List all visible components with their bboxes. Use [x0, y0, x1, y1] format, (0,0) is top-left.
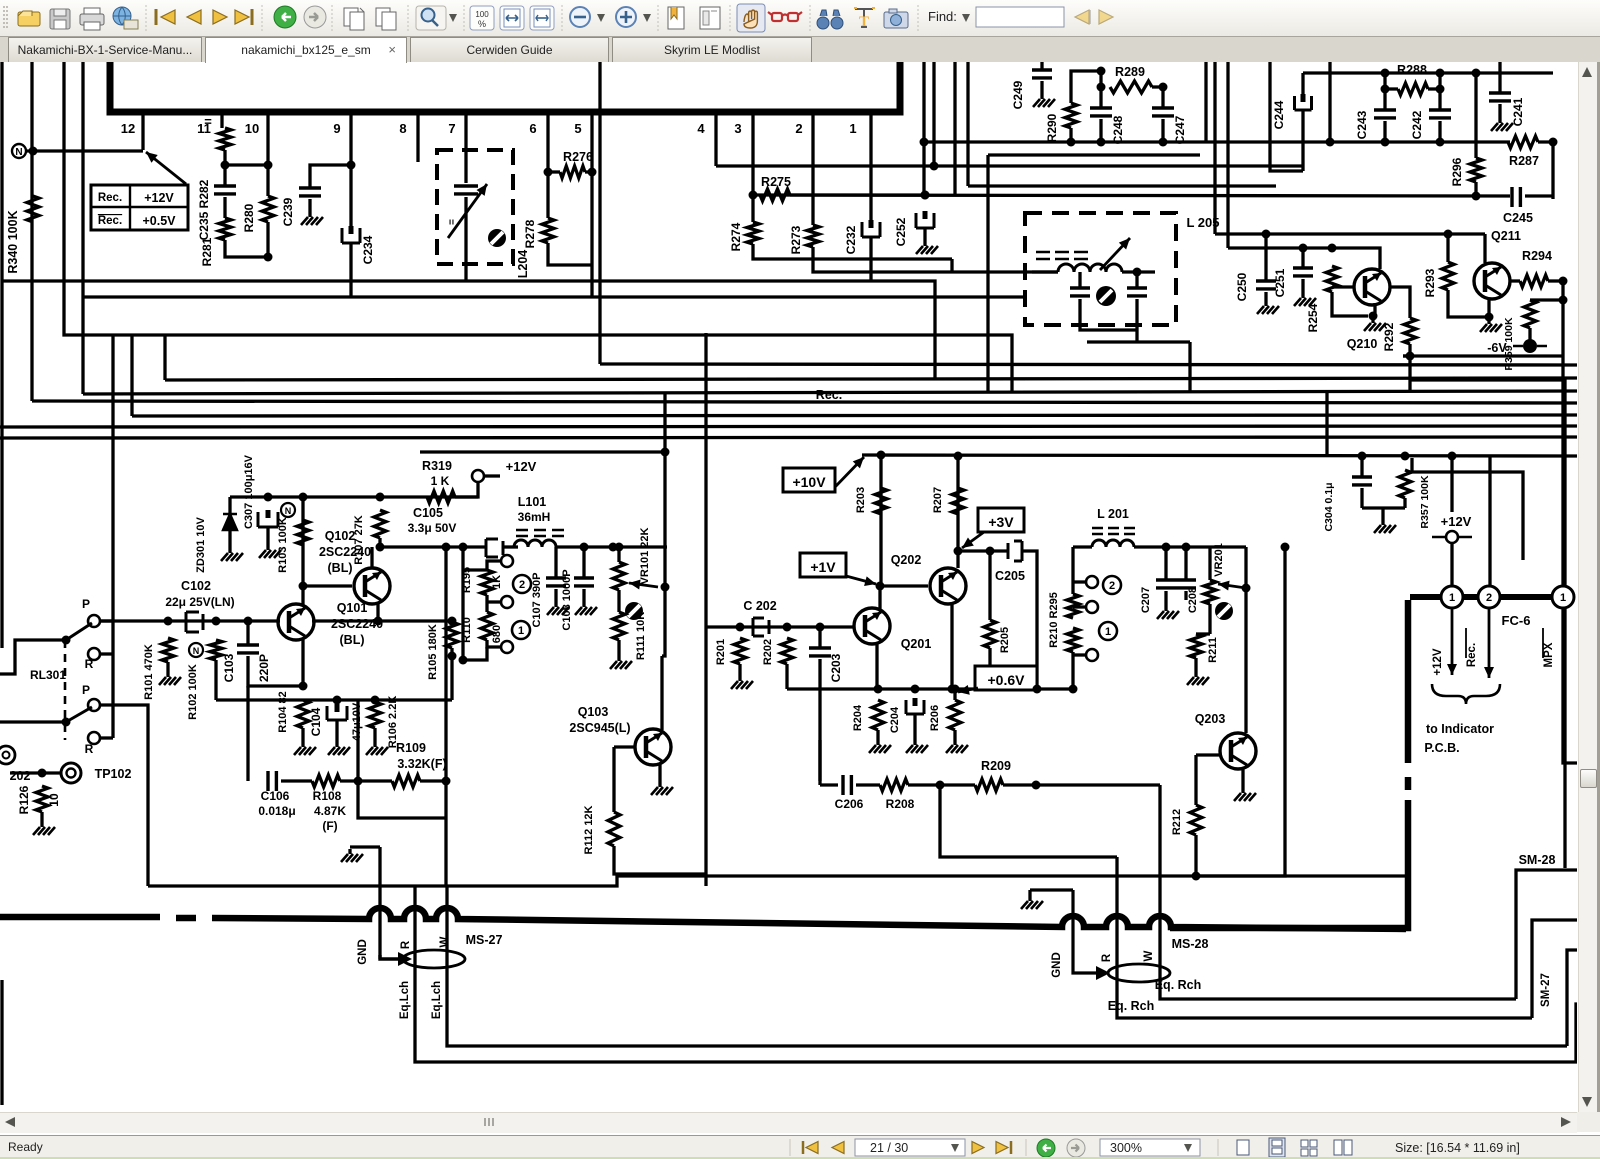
- selector contact d: [1086, 576, 1098, 588]
- ground under R204: [876, 740, 879, 745]
- signal wire y621: [100, 619, 280, 622]
- junction R289 left top: [1097, 67, 1106, 76]
- resistor R104: [297, 700, 309, 728]
- node wire pin10 R280: [225, 163, 268, 166]
- left vertical wire C: [30, 62, 33, 401]
- rail +0.6V: [787, 687, 1073, 690]
- junction R254 top: [1328, 244, 1337, 253]
- drop wire x1190: [1188, 342, 1191, 391]
- junction R105 bottom: [448, 652, 457, 661]
- svg-text:Rec.: Rec.: [98, 192, 122, 204]
- ground under C104: [335, 742, 338, 747]
- R295 chain: [1071, 547, 1074, 594]
- Q103 emitter wire: [658, 764, 661, 782]
- R111 to ground: [617, 640, 620, 656]
- +3V arrow: [962, 532, 984, 548]
- svg-text:C204: C204: [889, 706, 901, 733]
- junction C304 top: [1358, 452, 1367, 461]
- C106 to R108: [281, 779, 312, 782]
- selector contact a: [501, 555, 513, 567]
- junction R288 right: [1436, 85, 1445, 94]
- R104 bottom: [301, 728, 304, 742]
- resistor R209: [975, 779, 1003, 791]
- svg-text:R102 100K: R102 100K: [187, 664, 199, 720]
- capacitor C106: [268, 771, 276, 791]
- junction R290 bottom: [1067, 138, 1076, 147]
- vertical wire x955: [953, 62, 956, 196]
- resistor R106: [369, 702, 381, 728]
- R feed down: [1115, 857, 1118, 928]
- svg-text:RL301: RL301: [30, 668, 66, 682]
- svg-text:P: P: [82, 683, 90, 697]
- wire R278 bottom: [548, 243, 592, 265]
- junction R212 bottom: [1192, 872, 1201, 881]
- L204 bottom wire: [464, 240, 467, 281]
- left vertical wire E: [81, 62, 84, 394]
- svg-text:R319: R319: [422, 459, 452, 473]
- capacitor C247: [1152, 108, 1174, 116]
- svg-text:R108: R108: [313, 789, 342, 803]
- capacitor in L205 right: [1127, 288, 1147, 296]
- signal wire y621 east: [312, 619, 452, 622]
- L101 out: [556, 545, 667, 548]
- Q211 emitter wire: [1487, 299, 1490, 317]
- R209 drop down: [1158, 785, 1161, 928]
- vertical wire x1215: [1213, 62, 1216, 234]
- capacitor C205: [1008, 541, 1022, 561]
- svg-text:7: 7: [448, 121, 455, 136]
- R209 to east: [1003, 783, 1160, 786]
- resistor R288: [1398, 83, 1428, 95]
- junction R105 top: [448, 617, 457, 626]
- L204 internal wire: [464, 150, 467, 183]
- cable ferrule MS-27 ellipse: [403, 950, 465, 968]
- R359 top wire: [1530, 298, 1563, 301]
- svg-text:Eq. Rch: Eq. Rch: [1108, 999, 1155, 1013]
- wire C235 to R281: [223, 197, 226, 218]
- svg-text:C107 390P: C107 390P: [531, 572, 543, 627]
- svg-text:R110: R110: [461, 617, 473, 643]
- svg-text:R296: R296: [1450, 157, 1464, 186]
- svg-text:Q210: Q210: [1347, 337, 1378, 351]
- net wire y155: [988, 153, 1200, 156]
- selector e wire: [1073, 605, 1086, 608]
- C108 to ground: [582, 589, 585, 602]
- pointer to Rec table: [146, 152, 186, 184]
- svg-text:R211: R211: [1207, 637, 1219, 663]
- selector bottom wire: [463, 647, 487, 660]
- L205 cap1 bottom: [1080, 299, 1137, 330]
- svg-text:4: 4: [697, 121, 705, 136]
- +12V arrow down: [1451, 608, 1454, 675]
- svg-text:C307 100μ16V: C307 100μ16V: [243, 454, 255, 529]
- IC U201 outline (bottom edge): [110, 62, 900, 112]
- svg-text:VR201: VR201: [1213, 543, 1225, 577]
- C245 right wire: [1525, 194, 1553, 197]
- page border left upper: [0, 62, 3, 648]
- pin 3 wire: [751, 112, 754, 222]
- resistor R292: [1404, 318, 1416, 344]
- junction R209 left: [936, 781, 945, 790]
- VR101 feed corner: [663, 392, 666, 547]
- capacitor C250: [1256, 281, 1276, 289]
- L205 cap2 bottom: [1135, 299, 1138, 342]
- L205 cap1 stem: [1078, 272, 1081, 288]
- junction Q102 emitter: [374, 617, 383, 626]
- svg-text:9: 9: [333, 121, 340, 136]
- wire R lower stub: [100, 736, 113, 739]
- Rec voltage table: [91, 185, 188, 230]
- +12V terminal: [472, 470, 484, 482]
- svg-text:GND: GND: [357, 939, 369, 965]
- pin5 wire down: [590, 172, 593, 297]
- R101 bottom: [166, 662, 169, 672]
- SM-27 bracket: [1567, 950, 1600, 1046]
- svg-text:C249: C249: [1011, 80, 1025, 109]
- svg-text:3.3μ 50V: 3.3μ 50V: [408, 521, 457, 535]
- R wire MS-27: [415, 886, 1600, 1062]
- resistor R278: [542, 218, 554, 243]
- junction x1330 y142: [1326, 138, 1335, 147]
- vertical wire x1330: [1328, 62, 1331, 142]
- adjust screw L205: [1096, 286, 1116, 306]
- svg-text:C250: C250: [1235, 272, 1249, 301]
- Q202 base wire: [880, 584, 928, 587]
- FC-6 pin circle 1: [1441, 586, 1463, 608]
- VR101 wiper arrow: [629, 583, 658, 587]
- net wire y73: [1303, 71, 1553, 74]
- wire P upper to x113: [100, 619, 113, 622]
- variable capacitor in L204: [454, 186, 478, 194]
- C203 stem: [818, 627, 821, 648]
- capacitor C208: [1176, 580, 1196, 588]
- SM-28 bracket2: [1532, 920, 1600, 1018]
- junction eq bottom: [459, 656, 468, 665]
- ground under R104: [301, 742, 304, 747]
- transistor Q201: [854, 608, 890, 644]
- resistor R195: [481, 570, 493, 595]
- svg-text:FC-6: FC-6: [1502, 613, 1531, 628]
- svg-text:%: %: [478, 19, 486, 29]
- adjust screw VR101: [625, 602, 643, 620]
- svg-text:0.018μ: 0.018μ: [258, 804, 295, 818]
- L205 adjust arrow: [1100, 238, 1130, 270]
- R203 line: [879, 455, 882, 586]
- C243 bottom: [1383, 121, 1386, 142]
- junction C204 top: [911, 685, 920, 694]
- svg-text:36mH: 36mH: [518, 510, 551, 524]
- junction R101 top: [164, 617, 173, 626]
- resistor R289: [1110, 81, 1152, 93]
- ground under Q103: [658, 782, 661, 787]
- ground under C241: [1498, 118, 1501, 123]
- Q203 emitter: [1241, 767, 1244, 788]
- net wire y342: [1087, 340, 1190, 343]
- R108 to node: [340, 779, 358, 782]
- rail +12V y497: [230, 495, 478, 498]
- VR101 top wire: [617, 547, 620, 562]
- ground under C108: [582, 602, 585, 607]
- R206 bottom: [953, 730, 956, 740]
- svg-text:T: T: [859, 14, 869, 30]
- selector contact f: [1086, 649, 1098, 661]
- svg-text:2: 2: [1486, 592, 1492, 604]
- net wire y364: [600, 364, 1577, 365]
- vertical wire x1270: [1270, 62, 1303, 171]
- C248 node wire: [1099, 71, 1102, 108]
- svg-text:R273: R273: [789, 225, 803, 254]
- ground under C239: [308, 212, 311, 217]
- svg-text:1: 1: [1105, 626, 1111, 638]
- Q211 collector feed: [1483, 234, 1486, 263]
- bus wire Rec C: [32, 401, 1577, 403]
- svg-text:Q203: Q203: [1195, 712, 1226, 726]
- junction L201 out a: [1162, 543, 1171, 552]
- svg-text:VR101 22K: VR101 22K: [639, 528, 651, 585]
- capacitor C252: [916, 213, 934, 228]
- transistor Q103: [635, 729, 671, 765]
- resistor R340: [27, 196, 39, 222]
- C243 stem: [1383, 73, 1386, 110]
- switch contact P lower: [88, 699, 100, 711]
- wire R276 to pin5: [585, 170, 592, 173]
- junction C247 bottom: [1159, 138, 1168, 147]
- C304 stem: [1360, 456, 1363, 477]
- svg-text:R109: R109: [396, 741, 426, 755]
- pin 11 stub: [220, 112, 223, 128]
- capacitor C105: [486, 539, 503, 557]
- svg-text:21 / 30: 21 / 30: [870, 1141, 908, 1155]
- svg-text:R207: R207: [932, 487, 944, 513]
- label +1V box: [800, 553, 846, 577]
- wire R273 bottom: [813, 247, 1058, 272]
- resistor R208: [880, 779, 908, 791]
- junction L201 out c: [1281, 543, 1290, 552]
- +0.6V arrow: [958, 688, 978, 692]
- R293 bottom: [1448, 290, 1489, 317]
- FC-6 MPX pin circle 1: [1552, 586, 1574, 608]
- junction R206 top: [951, 685, 960, 694]
- selector contact c: [501, 641, 513, 653]
- svg-text:R206: R206: [929, 705, 941, 731]
- feedback drop x248: [246, 686, 249, 781]
- junction R107 top: [376, 493, 385, 502]
- resistor R101: [162, 638, 174, 662]
- svg-text:5: 5: [574, 121, 581, 136]
- R202 bottom: [785, 664, 788, 689]
- R112 line: [612, 747, 615, 812]
- switch pivot upper: [62, 636, 71, 645]
- svg-text:R201: R201: [715, 639, 727, 665]
- transistor Q202: [930, 568, 966, 604]
- corner wire x113: [111, 335, 114, 738]
- selector circle 1b: [1099, 622, 1117, 640]
- potentiometer VR101: [613, 562, 625, 590]
- svg-text:C304 0.1μ: C304 0.1μ: [1323, 482, 1335, 531]
- svg-text:R203: R203: [855, 487, 867, 513]
- R319 to terminal: [455, 482, 478, 497]
- resistor R254: [1326, 266, 1338, 292]
- svg-text:4.87K: 4.87K: [314, 804, 346, 818]
- C205 east corner: [1022, 551, 1037, 689]
- svg-text:Eq. Rch: Eq. Rch: [1155, 978, 1202, 992]
- svg-text:C104: C104: [309, 707, 323, 736]
- junction R102 top: [212, 617, 221, 626]
- svg-text:R111 10K: R111 10K: [635, 612, 647, 660]
- wire C234 down: [349, 243, 352, 297]
- svg-text:R289: R289: [1115, 65, 1145, 79]
- svg-text:R107 27K: R107 27K: [353, 515, 365, 565]
- svg-text:C245: C245: [1503, 211, 1533, 225]
- C203 bottom: [818, 659, 821, 781]
- svg-text:L204: L204: [516, 250, 530, 279]
- resistor R275: [760, 189, 790, 201]
- wire R274 bottom: [753, 244, 952, 259]
- ground under R206: [953, 740, 956, 745]
- wire pin6 to R276: [548, 170, 560, 173]
- ground under C307: [266, 545, 269, 550]
- junction C205 drop: [1033, 685, 1042, 694]
- cable ferrule MS-28 arrow: [1096, 966, 1110, 980]
- terminal to pin1: [1450, 543, 1453, 586]
- corner x1553: [1538, 142, 1553, 199]
- junction R210 bottom: [1069, 685, 1078, 694]
- GND drop MS-27: [380, 955, 398, 959]
- svg-text:to Indicator: to Indicator: [1426, 722, 1494, 736]
- C304 bottom: [1360, 488, 1363, 508]
- svg-text:R275: R275: [761, 175, 791, 189]
- resistor R295: [1067, 594, 1079, 618]
- bus wire G: [420, 450, 665, 453]
- C250 stem: [1264, 234, 1267, 281]
- vertical wire x1228: [1226, 62, 1229, 248]
- C204 bottom: [913, 714, 916, 740]
- junction R209 right: [1032, 781, 1041, 790]
- Q202 emitter: [950, 602, 953, 689]
- junction R292 y356: [1406, 352, 1415, 361]
- R290 top wire: [1071, 71, 1101, 103]
- cable ferrule MS-27 arrow: [398, 952, 412, 966]
- transistor Q102: [354, 568, 390, 604]
- vertical wire x988 to bus: [986, 155, 989, 393]
- junction Q102 collector node: [376, 543, 385, 552]
- +12V feed from rail: [1450, 456, 1453, 512]
- svg-text:=: =: [204, 114, 212, 129]
- label +10V box: [783, 468, 835, 492]
- R293 stems: [1446, 234, 1449, 262]
- x1327 drop: [1325, 391, 1328, 456]
- resistor R276: [560, 166, 585, 178]
- resistor R212: [1190, 805, 1202, 835]
- R207 line: [956, 453, 959, 551]
- R109 wire: [358, 779, 392, 782]
- junction C243 bottom: [1381, 138, 1390, 147]
- capacitor C206: [843, 775, 851, 795]
- svg-text:R: R: [85, 742, 94, 756]
- svg-text:R287: R287: [1509, 154, 1539, 168]
- svg-text:P.C.B.: P.C.B.: [1424, 741, 1459, 755]
- svg-text:Eq.Lch: Eq.Lch: [431, 981, 443, 1019]
- ground under C207: [1164, 606, 1167, 611]
- svg-text:C251: C251: [1273, 268, 1287, 297]
- junction VR101 wiper: [661, 583, 670, 592]
- svg-text:+12V: +12V: [506, 459, 537, 474]
- R206 top stub: [953, 689, 956, 700]
- resistor R201: [734, 638, 746, 664]
- L205 coil to caps: [1122, 270, 1155, 273]
- svg-text:C103: C103: [222, 653, 236, 682]
- svg-text:Q102: Q102: [325, 529, 356, 543]
- svg-text:8: 8: [399, 121, 406, 136]
- ground mid bottom: [348, 849, 351, 854]
- ground under C249: [1040, 94, 1043, 99]
- R212 line: [1194, 755, 1197, 805]
- resistor R203: [875, 488, 887, 514]
- junction output y547: [442, 543, 451, 552]
- svg-text:+12V: +12V: [144, 191, 174, 205]
- junction L101 out a: [580, 543, 589, 552]
- Q203 collector line: [1244, 547, 1247, 733]
- inductor L204 dashed box: [437, 150, 513, 264]
- R109 to output drop: [420, 779, 446, 782]
- C251 stem: [1301, 248, 1304, 268]
- svg-text:C244: C244: [1272, 100, 1286, 129]
- resistor R205: [984, 620, 996, 648]
- ground under R211: [1194, 672, 1197, 677]
- Rec line to pin2: [1488, 456, 1491, 586]
- selector contact e: [1086, 601, 1098, 613]
- svg-text:+12V: +12V: [1432, 648, 1444, 676]
- svg-text:202: 202: [10, 769, 31, 783]
- pin 2 wire: [811, 112, 814, 225]
- Q211 output wire: [1510, 279, 1520, 282]
- switch contact R upper: [88, 648, 100, 660]
- junction R287 corner: [1549, 138, 1558, 147]
- L205 core dashes: [1036, 252, 1088, 259]
- junction output drop: [442, 777, 451, 786]
- svg-text:R276: R276: [563, 150, 593, 164]
- net wire y380 corner: [1410, 380, 1565, 868]
- svg-text:C247: C247: [1173, 115, 1187, 144]
- transistor Q203: [1220, 733, 1256, 769]
- C107 to ground: [554, 589, 557, 602]
- brace to indicator: [1432, 684, 1500, 704]
- svg-text:GND: GND: [1051, 952, 1063, 978]
- ground under Q211: [1487, 319, 1490, 324]
- Q103 base wire: [614, 745, 634, 748]
- capacitor C204: [906, 700, 924, 714]
- svg-text:R105 180K: R105 180K: [427, 624, 439, 680]
- resistor R282: [219, 128, 231, 150]
- L101 core dashes: [516, 530, 564, 536]
- svg-text:1: 1: [1560, 592, 1566, 604]
- resistor R357: [1399, 470, 1411, 498]
- Q103 collector wire: [660, 656, 663, 730]
- junction feedback node: [354, 777, 363, 786]
- switch contact R lower: [88, 732, 100, 744]
- switch arm lower: [66, 707, 92, 722]
- svg-text:ZD301 10V: ZD301 10V: [195, 517, 207, 573]
- wire R280 bottom: [266, 222, 269, 257]
- svg-text:6: 6: [529, 121, 536, 136]
- wire from N to arrow corner: [26, 149, 143, 152]
- svg-text:R210 R295: R210 R295: [1048, 592, 1060, 648]
- C108 stem: [582, 547, 585, 578]
- page border left lower: [0, 980, 3, 1105]
- bus drop x132: [130, 335, 133, 416]
- ground under C304 R357: [1381, 520, 1384, 525]
- junction y73 C242: [1436, 69, 1445, 78]
